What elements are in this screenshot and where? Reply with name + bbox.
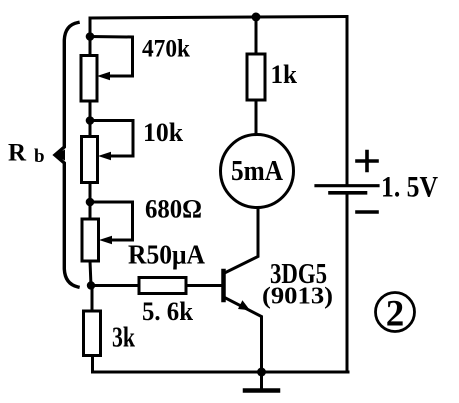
potentiometer 10k wiper loop bbox=[90, 121, 133, 157]
potentiometer 470k wiper arrow bbox=[97, 72, 110, 80]
svg-text:470k: 470k bbox=[142, 36, 190, 63]
wire between 470k and 10k bbox=[89, 101, 92, 137]
battery B1 negative plate bbox=[330, 191, 366, 195]
wire 1k to meter bbox=[255, 100, 258, 135]
potentiometer 680 wiper arrow bbox=[99, 236, 112, 244]
transistor Q1 emitter arrow bbox=[238, 300, 250, 310]
node 1k top bbox=[252, 13, 261, 22]
svg-text:5. 6k: 5. 6k bbox=[142, 297, 194, 326]
brace Rb bbox=[55, 23, 78, 288]
potentiometer 470k wiper loop bbox=[90, 37, 133, 77]
potentiometer 10k body bbox=[82, 137, 98, 183]
battery B1 positive plate bbox=[316, 184, 378, 187]
wire 3k to bottom bus bbox=[91, 356, 94, 373]
svg-text:2: 2 bbox=[386, 294, 405, 335]
potentiometer 680 body bbox=[82, 219, 99, 261]
resistor 1k body bbox=[247, 54, 265, 100]
node base junction bbox=[87, 281, 95, 289]
svg-text:5mA: 5mA bbox=[231, 156, 284, 187]
wire top bus to 1k bbox=[255, 17, 258, 54]
wire right branch lower bbox=[346, 193, 349, 372]
svg-text:(9013): (9013) bbox=[262, 284, 333, 310]
meter M1 5mA body bbox=[221, 135, 294, 208]
ground stub bbox=[260, 372, 263, 390]
battery minus sign bbox=[357, 210, 377, 214]
svg-text:3k: 3k bbox=[112, 322, 136, 354]
svg-text:b: b bbox=[34, 146, 45, 167]
node 470k top bbox=[86, 32, 95, 41]
svg-text:R50μA: R50μA bbox=[128, 240, 205, 270]
potentiometer 470k body bbox=[81, 56, 97, 102]
svg-text:1. 5V: 1. 5V bbox=[381, 171, 438, 204]
wire 680 to base node bbox=[90, 261, 91, 286]
wire base node to 5.6k bbox=[91, 284, 139, 287]
resistor 3k body bbox=[84, 311, 101, 356]
wire bottom bus bbox=[93, 371, 349, 374]
battery plus sign bbox=[357, 152, 377, 171]
node 10k top bbox=[86, 116, 95, 125]
wire base node to 3k bbox=[91, 286, 94, 312]
transistor Q1 base bar bbox=[221, 271, 226, 300]
wire 5.6k to transistor base bbox=[186, 284, 222, 287]
svg-text:R: R bbox=[8, 140, 27, 167]
wire top bus bbox=[90, 17, 347, 19]
figure number circle 2 bbox=[376, 293, 415, 332]
node 680 top bbox=[86, 198, 95, 207]
wire right branch upper bbox=[346, 17, 349, 185]
wire left branch upper bbox=[89, 18, 92, 56]
svg-text:10k: 10k bbox=[143, 118, 184, 147]
transistor Q1 emitter lead bbox=[224, 297, 262, 372]
node emitter bottom bbox=[257, 368, 266, 377]
svg-text:680Ω: 680Ω bbox=[145, 195, 202, 224]
wire between 10k and 680 bbox=[89, 183, 92, 220]
resistor 5.6k body bbox=[139, 278, 186, 294]
transistor Q1 collector lead bbox=[224, 208, 259, 274]
ground bar bbox=[245, 388, 278, 393]
potentiometer 680 wiper loop bbox=[90, 202, 133, 240]
potentiometer 10k wiper arrow bbox=[98, 152, 111, 160]
svg-text:1k: 1k bbox=[271, 60, 298, 89]
